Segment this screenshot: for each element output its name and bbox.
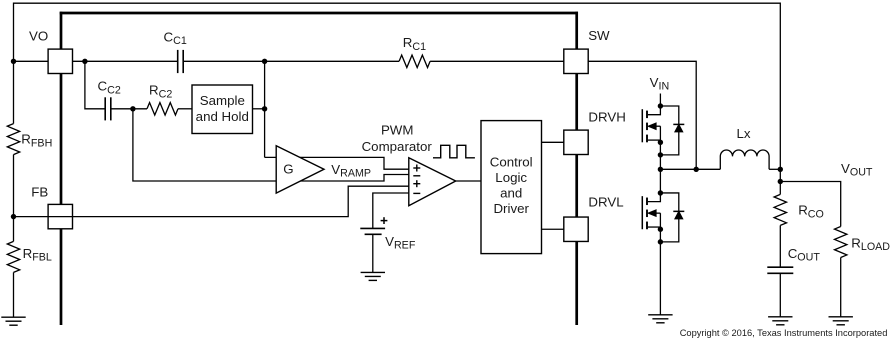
ground (RFBL) [1,317,25,325]
node: Q1 source junction [658,140,663,145]
wire: RLOAD to ground [840,258,842,317]
wire: VOUT branch to RLOAD [780,182,840,227]
svg-text:VREF: VREF [385,234,416,252]
node: Q2 drain junction [658,190,663,195]
svg-text:G: G [283,161,293,176]
label PWM Comparator [362,123,433,155]
svg-text:VIN: VIN [650,75,670,93]
label VO [29,29,48,44]
capacitor CC1 [178,50,184,73]
ground (VREF) [361,272,385,280]
op-amp U1 gain block G [276,146,324,193]
wire: comparator output to control box [456,180,481,182]
svg-text:RC2: RC2 [149,83,172,101]
wire: VO pin horizontal rail [14,60,178,62]
node: sample-hold output junction [262,106,267,111]
chip boundary right edge segments [575,12,578,325]
pin SW [564,49,588,73]
node: FB-RFBL junction [11,214,16,219]
pin FB [48,204,72,228]
svg-text:VRAMP: VRAMP [331,162,371,180]
resistor RC2 [147,103,178,115]
wire: CC1 to RC1 [184,60,399,62]
box U4 control logic and driver [481,121,542,254]
svg-text:RCO: RCO [798,203,824,221]
svg-text:RC1: RC1 [403,35,426,53]
chip boundary top edge [60,12,578,15]
wire: Q2 source to ground [659,242,661,315]
svg-text:CC2: CC2 [98,79,121,97]
svg-text:and: and [500,186,522,201]
wire: sample-hold output to CC1 node [253,61,265,157]
inductor Lx [720,150,769,169]
node: switch node at Q1/Q2 [658,167,663,172]
node: CC1-SH output junction [262,59,267,64]
svg-text:Lx: Lx [737,126,751,141]
diode D2 body diode of Q2 [660,193,684,242]
node: VO-RFBH junction [11,59,16,64]
copyright notice [680,328,888,338]
svg-text:VO: VO [29,29,48,44]
wire: control box to DRVL pin [542,228,564,230]
pin DRVL [564,217,588,241]
label DRVH [588,110,625,125]
label RC2 [149,83,172,101]
resistor RFBH [7,124,19,155]
wire: ramp upper path into comparator + [265,157,409,169]
svg-text:RFBH: RFBH [21,132,52,150]
label RFBL [23,246,52,264]
label CC2 [98,79,121,97]
resistor RC1 [399,55,430,67]
wire: RCO to COUT [779,225,781,266]
svg-text:VOUT: VOUT [841,161,873,179]
node: Q1 drain junction [658,103,663,108]
node: CC2 tap junction [82,59,87,64]
wire: control box to DRVH pin [542,141,564,143]
svg-text:Driver: Driver [493,201,529,216]
comparator U3 PWM [409,158,456,206]
wire: COUT to ground [779,273,781,317]
node: VOUT upper junction [778,167,783,172]
wire: CC2 branch from VO rail [85,61,105,109]
pin VO [48,49,72,73]
resistor RFBL [7,241,19,272]
node: Q1 diode junction [658,152,663,157]
node: Q2 diode junction [658,239,663,244]
transistor Q1 high-side NMOS [642,106,660,155]
wire: SW pin to switch node [588,61,696,169]
svg-text:Sample: Sample [200,93,245,108]
capacitor CC2 [105,97,111,120]
label CC1 [164,29,187,47]
label VRAMP [331,162,371,180]
resistor RLOAD [835,227,847,258]
label RLOAD [851,235,890,253]
label COUT [788,246,821,264]
node: VOUT branch junction [778,179,783,184]
svg-text:SW: SW [588,28,610,43]
waveform: PWM square wave [433,145,475,158]
svg-text:Copyright © 2016, Texas Instru: Copyright © 2016, Texas Instruments Inco… [680,328,888,338]
svg-text:Comparator: Comparator [362,139,433,154]
resistor RCO [774,194,786,225]
label Lx [737,126,751,141]
voltage source VREF battery [360,217,387,234]
diode D1 body diode of Q1 [660,106,684,155]
svg-text:RLOAD: RLOAD [851,235,890,253]
wire: switch node rail to inductor [660,168,720,170]
svg-text:DRVL: DRVL [588,195,623,210]
capacitor COUT [767,267,793,273]
box U2 sample and hold [192,85,253,134]
svg-text:and Hold: and Hold [196,109,249,124]
label SW [588,28,610,43]
wire: RFBH to FB node [13,155,15,242]
wire: inductor to VOUT node [769,168,780,170]
svg-text:Control: Control [490,154,533,169]
ground (power stage) [648,315,672,323]
wire: output feedback loop (top rail from VO node to VOUT node) [14,3,781,169]
wire: FB to comparator + [14,186,409,216]
ground (COUT) [768,317,792,325]
wire: RC1 to SW pin [430,60,564,62]
label RFBH [21,132,52,150]
label FB [31,185,48,200]
wire: Q1 source to switch node [659,155,661,169]
svg-text:PWM: PWM [381,123,414,138]
wire: ramp lower path into comparator - [133,109,409,181]
svg-text:Logic: Logic [495,170,527,185]
pin DRVH [564,130,588,154]
wire: VREF to comparator - [373,193,409,228]
label VOUT [841,161,873,179]
ground (RLOAD) [829,317,853,325]
svg-text:RFBL: RFBL [23,246,52,264]
label VREF [385,234,416,252]
svg-text:COUT: COUT [788,246,821,264]
wire: VREF battery to ground [372,234,374,272]
wire: VOUT node down to RCO [779,169,781,194]
wire: CC2 to RC2 [112,108,148,110]
transistor Q2 low-side NMOS [642,193,660,242]
node: Q2 source junction [658,227,663,232]
svg-text:DRVH: DRVH [588,110,625,125]
svg-text:CC1: CC1 [164,29,187,47]
svg-text:FB: FB [31,185,48,200]
node: SW wire junction [694,167,699,172]
wire: RC2 to sample-hold box [178,108,192,110]
label RC1 [403,35,426,53]
wire: VIN stub [659,94,661,107]
label VIN [650,75,670,93]
chip boundary left edge segments [60,12,63,325]
label DRVL [588,195,623,210]
wire: switch node to Q2 drain [659,169,661,193]
wire: RFBL to ground [13,272,15,317]
node: CC2-RC2-Gamp junction [130,106,135,111]
label RCO [798,203,824,221]
